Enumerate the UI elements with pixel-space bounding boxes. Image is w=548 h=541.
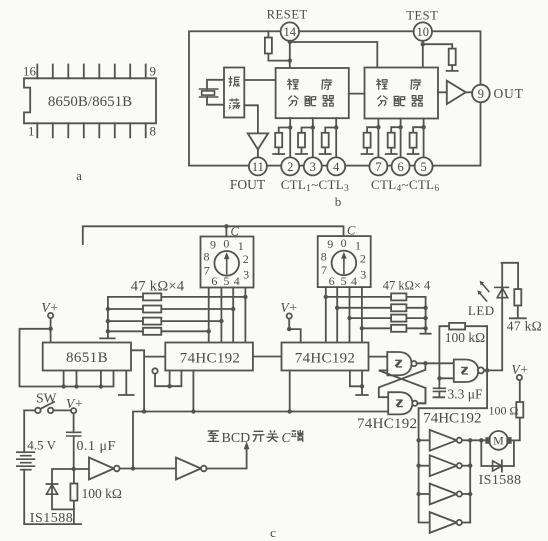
wire: TEST pin 10 net <box>423 40 458 71</box>
capacitor 3.3uF <box>434 378 445 397</box>
svg-text:6: 6 <box>397 160 403 174</box>
svg-text:LED: LED <box>468 303 495 318</box>
chip 74HC192 no.2 <box>282 343 369 371</box>
wire: inverter output bus <box>469 440 471 522</box>
pin 7 <box>369 157 387 175</box>
svg-text:9: 9 <box>478 87 484 101</box>
wires: S1 pins down to 74HC192 <box>209 288 246 343</box>
pin 5 <box>415 157 433 175</box>
battery 4.5V <box>23 410 25 524</box>
wire: C bus across top of part c <box>83 226 344 244</box>
svg-text:3.3 μF: 3.3 μF <box>448 387 483 402</box>
svg-text:V+: V+ <box>280 300 297 315</box>
svg-text:74HC192: 74HC192 <box>357 416 417 432</box>
wire: main control bus <box>133 412 388 469</box>
program distributor 2 <box>365 68 439 119</box>
resistor at RESET <box>265 38 272 54</box>
output buffer <box>447 81 466 104</box>
wire: V+ into 8651B and left rail to bottom bus <box>20 318 114 386</box>
block diagram outer boundary (part b) <box>189 31 481 165</box>
diode IS1588 (left) <box>47 469 74 509</box>
inverter U4C <box>419 493 430 495</box>
svg-text:C: C <box>231 224 240 238</box>
wire: U3C output node <box>419 298 503 409</box>
wire: crystal to oscillator <box>207 80 224 105</box>
chip 74HC192 no.1 <box>165 343 253 371</box>
pin 10 <box>414 22 432 40</box>
pin 3 <box>304 157 322 175</box>
pin 11 <box>249 157 267 175</box>
wire: distributor2 to output buffer <box>438 91 447 93</box>
pull resistor <box>388 133 395 148</box>
svg-text:10: 10 <box>417 25 430 39</box>
svg-text:IS1588: IS1588 <box>479 473 522 488</box>
resistor 100k (left) <box>73 469 75 524</box>
pull resistor <box>275 133 282 148</box>
wire/arrow: to BCD switch C <box>207 449 247 469</box>
svg-text:RESET: RESET <box>267 8 308 22</box>
svg-text:V+: V+ <box>66 396 83 411</box>
svg-text:14: 14 <box>284 25 297 39</box>
BCD switch S2 <box>318 236 371 288</box>
NAND U3B <box>388 392 412 414</box>
LED emission arrows <box>479 283 489 301</box>
svg-text:47 kΩ: 47 kΩ <box>507 319 542 334</box>
pull resistor <box>322 133 329 148</box>
svg-text:C: C <box>282 430 292 445</box>
resistor at TEST <box>449 49 456 66</box>
node: RESET junctions <box>288 40 292 44</box>
resistor 100k feedback <box>439 326 487 378</box>
inverter U2B <box>176 458 201 480</box>
wire: to motor <box>470 439 486 441</box>
wire: motor to 100 ohm to V+ <box>511 380 520 440</box>
svg-text:9: 9 <box>150 64 157 79</box>
svg-text:8: 8 <box>150 124 157 139</box>
wire: buffer to pin 9 <box>466 91 473 93</box>
chip1 bottom pins + borrow terminal <box>155 371 193 412</box>
svg-text:IS1588: IS1588 <box>30 511 73 526</box>
resistor 47k (right) <box>510 306 526 319</box>
svg-text:2: 2 <box>287 160 293 174</box>
wires: S2 pins down to 74HC192 <box>326 287 362 342</box>
V+ terminal (chip2) <box>289 319 301 343</box>
wire: cross couple U3B out to U3A in <box>379 370 426 403</box>
wire: CTL pin at x=401 <box>386 119 401 159</box>
wire: RESET pin 14 to distributor blocks <box>268 31 377 68</box>
wire: chip1 to chip2 <box>253 356 282 358</box>
wire: oscillator to distributor 1 <box>244 79 275 81</box>
svg-text:a: a <box>76 168 82 183</box>
inverter U4D <box>430 512 457 533</box>
wire: CTL pin at x=290 <box>273 118 290 158</box>
switch SW <box>24 402 71 411</box>
ground stub under 8651B <box>119 371 134 396</box>
svg-text:3: 3 <box>310 160 316 174</box>
inverter U4A <box>419 439 430 441</box>
svg-text:16: 16 <box>23 64 37 79</box>
svg-text:74HC192: 74HC192 <box>295 351 355 367</box>
svg-text:0.1 μF: 0.1 μF <box>77 439 116 454</box>
diode IS1588 (flyback) <box>481 440 514 471</box>
motor M <box>489 431 508 450</box>
svg-text:8651B: 8651B <box>66 350 108 366</box>
svg-text:47 kΩ× 4: 47 kΩ× 4 <box>383 279 431 293</box>
wire: oscillator to FOUT buffer <box>244 105 258 133</box>
wire: U2A out to U2B <box>120 468 176 470</box>
svg-text:7: 7 <box>375 160 381 174</box>
svg-text:b: b <box>335 194 342 209</box>
wire: battery negative to resistor bottom <box>24 523 81 525</box>
crystal X1 <box>200 89 218 97</box>
svg-text:CTL4~CTL6: CTL4~CTL6 <box>371 177 439 194</box>
pull resistor <box>364 133 371 148</box>
wire: U3A out to U3C <box>417 362 454 364</box>
svg-text:8650B/8651B: 8650B/8651B <box>48 94 132 110</box>
svg-text:100 kΩ: 100 kΩ <box>445 330 485 345</box>
svg-text:11: 11 <box>252 160 264 174</box>
V+ terminal (SW) <box>71 408 76 413</box>
wire: CTL pin at x=378 <box>362 119 379 159</box>
program distributor 1 <box>276 68 349 118</box>
svg-text:100 Ω: 100 Ω <box>489 404 519 418</box>
wire: cross couple U3A out to U3B in <box>379 363 426 397</box>
svg-text:1: 1 <box>28 124 35 139</box>
svg-text:c: c <box>270 525 276 540</box>
wire: CTL pin at x=336 <box>320 118 337 158</box>
BCD switch S1 <box>201 237 254 289</box>
IC pins 1-16 <box>37 65 145 138</box>
IC package 8650B/8651B (part a) <box>23 64 156 184</box>
wire: 8651B to 74HC192 no.1 (step) + drop to bus <box>131 350 165 411</box>
resistor bank 47k x4 (right) <box>326 297 431 334</box>
inverter U2A <box>74 468 89 470</box>
chip 8651B <box>43 343 131 371</box>
buffer to FOUT pin 11 <box>248 133 268 149</box>
svg-text:OUT: OUT <box>494 86 524 101</box>
svg-text:C: C <box>347 224 356 238</box>
node: TEST junction <box>421 42 425 46</box>
svg-text:100 kΩ: 100 kΩ <box>82 486 122 501</box>
wire: inverter input bus <box>419 408 430 522</box>
V+ terminal (8651B) <box>48 313 53 318</box>
NAND U3C <box>439 377 453 379</box>
oscillator block <box>224 68 244 118</box>
svg-text:V+: V+ <box>41 300 58 315</box>
pin 4 <box>327 157 345 175</box>
wire: distributor1 to distributor2 <box>349 93 365 95</box>
wire: CTL pin at x=424 <box>408 119 424 159</box>
capacitor 0.1uF <box>73 413 75 469</box>
svg-text:74HC192: 74HC192 <box>423 411 481 427</box>
svg-text:5: 5 <box>420 160 426 174</box>
svg-text:BCD: BCD <box>222 431 251 446</box>
svg-text:4.5 V: 4.5 V <box>27 437 56 452</box>
svg-text:V+: V+ <box>511 362 528 377</box>
NAND U3A <box>369 356 388 358</box>
svg-text:FOUT: FOUT <box>230 177 266 192</box>
inverter U4B <box>419 465 430 467</box>
wire: U3B out up to cross <box>418 388 426 403</box>
wire: CTL pin at x=313 <box>296 118 313 158</box>
pin 6 <box>392 157 410 175</box>
V+ terminal (motor) <box>517 375 522 380</box>
pull resistor <box>298 133 305 148</box>
svg-text:74HC192: 74HC192 <box>180 351 240 367</box>
svg-text:TEST: TEST <box>406 9 438 23</box>
chip2 bottom pins + ground <box>290 371 368 412</box>
svg-text:47 kΩ×4: 47 kΩ×4 <box>131 279 185 295</box>
svg-text:CTL1~CTL3: CTL1~CTL3 <box>281 177 349 194</box>
LED + top bracket <box>502 263 518 298</box>
pull resistor <box>410 133 417 148</box>
pin 14 <box>281 22 299 40</box>
svg-text:M: M <box>493 434 504 448</box>
pin 9 <box>472 85 490 103</box>
label: zhi BCD kai guan C duan <box>207 430 303 446</box>
resistor bank 47k x4 (left) <box>100 297 245 339</box>
svg-text:SW: SW <box>36 391 57 406</box>
pin 2 <box>281 157 299 175</box>
svg-text:4: 4 <box>333 160 340 174</box>
